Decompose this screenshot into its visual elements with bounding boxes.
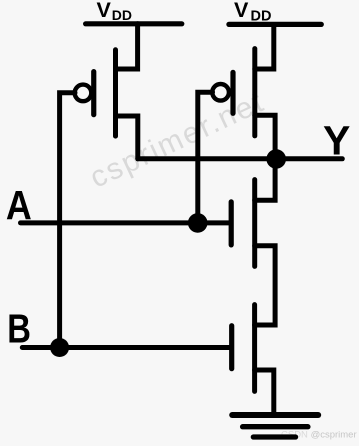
wire node Y to NMOS Q3 drain [255,159,275,200]
junction node A [188,213,208,233]
svg-text:B: B [7,305,31,351]
Q1 gate bubble [75,85,92,102]
Q4 gate bar [229,326,234,369]
transistor Q4 NMOS (bottom, gate driven by B) [232,305,255,392]
ground symbol [232,415,318,437]
junction node Y [266,149,286,169]
power rail VDD (right) [229,22,321,27]
wire Q4 source to ground [255,370,274,415]
svg-text:DD: DD [112,7,132,23]
Q3 channel [252,180,257,267]
Q3 gate bar [229,202,234,245]
Q2 gate bar [230,72,235,113]
svg-text:V: V [97,0,112,22]
net label VDD (right) [234,0,271,25]
Q1 channel [113,50,118,136]
wire PMOS Q1 drain to node Y [116,116,138,159]
transistor Q3 NMOS (top, gate driven by A) [231,180,255,267]
svg-text:A: A [6,183,32,229]
ground bar 3 [253,434,295,439]
Q2 gate bubble [212,84,229,101]
input wire A [21,220,229,225]
Q4 channel [252,305,257,392]
Q2 channel [252,49,257,136]
wire B node to Q1 gate bubble [60,93,75,348]
wire PMOS Q2 drain to node Y [255,115,275,159]
svg-text:csprimer.net: csprimer.net [85,85,270,195]
wire VDD rail to PMOS Q1 source [116,24,138,69]
ground bar 2 [243,424,308,429]
net label VDD (left) [97,0,133,23]
svg-text:V: V [234,0,249,22]
wire A node to Q2 gate bubble [198,92,213,223]
wire output node Y [138,156,342,161]
wire Q3 source to NMOS Q4 drain [255,246,276,325]
junction node B [50,338,69,357]
transistor Q1 PMOS (left, gate driven by B) [75,50,116,136]
svg-text:Y: Y [323,118,350,164]
transistor Q2 PMOS (right, gate driven by A) [212,49,255,136]
power rail VDD (left) [86,21,182,26]
wire VDD rail to PMOS Q2 source [255,25,274,70]
input wire B [22,345,229,350]
Q1 gate bar [91,72,96,115]
ground bar 1 [232,412,318,418]
